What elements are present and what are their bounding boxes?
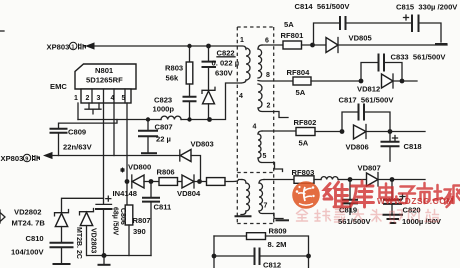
- watermark char shi: [418, 183, 433, 203]
- capacitor C806 68u 50V: [96, 196, 126, 255]
- svg-text:C807: C807: [155, 123, 173, 132]
- svg-text:R803: R803: [165, 64, 183, 73]
- capacitor C811: [143, 182, 172, 256]
- junction bus right end: [207, 117, 212, 122]
- capacitor C820 1000u 50V: [384, 180, 442, 227]
- svg-text:N801: N801: [95, 66, 114, 75]
- svg-text:C818: C818: [404, 142, 422, 151]
- junction VD805 anode: [310, 43, 315, 48]
- diode VD807: [350, 164, 425, 187]
- svg-text:R807: R807: [133, 216, 151, 225]
- arrow to XP803 pin9: [43, 152, 53, 159]
- inductor bus coil: [161, 116, 181, 119]
- pin 1: [240, 37, 244, 44]
- ground T802 left: [236, 211, 251, 216]
- pin 5: [263, 153, 267, 160]
- svg-text:22 µ: 22 µ: [156, 135, 171, 144]
- ground IC pins 2,3: [85, 103, 101, 114]
- svg-text:C814 561/500V: C814 561/500V: [295, 2, 351, 11]
- svg-text:VD803: VD803: [191, 140, 214, 149]
- capacitor C814: [295, 2, 351, 29]
- svg-text:R809: R809: [269, 227, 287, 236]
- capacitor C822 0.022u 630V: [203, 46, 240, 90]
- watermark char chang: [434, 185, 453, 207]
- svg-text:5A: 5A: [296, 88, 306, 97]
- svg-text:VD807: VD807: [358, 164, 381, 173]
- fuse resistor RF803: [264, 168, 321, 183]
- svg-text:XP803: XP803: [47, 43, 70, 52]
- resistor R809 8.2M: [214, 227, 309, 256]
- ground C820: [384, 215, 403, 223]
- svg-text:VD800: VD800: [128, 163, 151, 172]
- watermark char ku: [351, 181, 374, 207]
- wire IC pin1 to bus: [77, 103, 79, 120]
- node XP803 pin1 label: [47, 42, 86, 51]
- watermark slogan gou: [390, 210, 403, 224]
- svg-text:IN4148: IN4148: [113, 189, 138, 198]
- svg-text:VD812: VD812: [357, 85, 380, 94]
- diode VD805: [326, 34, 447, 53]
- svg-text:2: 2: [267, 103, 271, 110]
- capacitor C812: [214, 249, 309, 268]
- junction VD806 anode: [340, 129, 345, 134]
- zener diode VD801: [202, 87, 215, 119]
- svg-text:VD804: VD804: [177, 189, 201, 198]
- svg-text:MT24. 7B: MT24. 7B: [12, 219, 46, 228]
- svg-text:630V: 630V: [215, 69, 234, 78]
- label EMC: [50, 82, 67, 91]
- svg-text:XP803: XP803: [1, 154, 24, 163]
- node XP803 pin9 label: [1, 154, 40, 163]
- svg-text:2: 2: [86, 95, 90, 102]
- junction C807 bus: [146, 117, 150, 121]
- watermark slogan quan: [297, 209, 308, 221]
- svg-text:MT2B. 2C: MT2B. 2C: [75, 227, 82, 259]
- watermark slogan cai: [371, 210, 382, 222]
- wire primary return: [210, 80, 247, 120]
- svg-text:WWW.DZSC.COM: WWW.DZSC.COM: [377, 196, 454, 206]
- resistor R803 56k: [165, 46, 193, 97]
- svg-text:C806: C806: [119, 208, 126, 225]
- watermark char zi: [399, 187, 415, 204]
- transformer T802 winding left: [242, 180, 250, 212]
- diode VD803 reverse clamp: [180, 140, 214, 182]
- watermark logo circle: [292, 181, 320, 209]
- svg-text:1000p: 1000p: [153, 105, 175, 114]
- watermark slogan da: [353, 210, 364, 222]
- junction C811 top: [149, 179, 154, 184]
- pin 4: [239, 93, 243, 100]
- transformer T801 winding 4-5: [258, 131, 283, 172]
- IC N801 5D1265RF: [74, 64, 136, 103]
- watermark url text: [377, 196, 454, 206]
- watermark slogan zhan: [425, 210, 439, 222]
- wire VD800 feed vertical: [103, 103, 105, 204]
- watermark char dian: [380, 184, 397, 201]
- capacitor C817 bypass loop: [339, 96, 395, 132]
- svg-text:C811: C811: [154, 203, 173, 212]
- svg-text:1: 1: [71, 45, 74, 51]
- junction C820 top: [390, 177, 395, 182]
- watermark slogan zui: [335, 210, 345, 223]
- zener diode VD2802 MT24.7B: [12, 208, 69, 243]
- fuse resistor RF801 5A: [262, 20, 326, 49]
- svg-text:5A: 5A: [299, 139, 309, 148]
- junction VD812 cathode: [400, 79, 405, 84]
- svg-text:C823: C823: [154, 96, 172, 105]
- svg-text:C810: C810: [26, 234, 44, 243]
- capacitor C833 bypass loop: [361, 53, 446, 82]
- arrow to XP803 pin1: [85, 42, 95, 49]
- junction ground stem: [99, 253, 110, 265]
- watermark char wang clipped: [454, 186, 460, 204]
- svg-text:22n/63V: 22n/63V: [63, 143, 93, 152]
- svg-text:0. 022 µ: 0. 022 µ: [212, 59, 240, 68]
- pin 7: [264, 203, 268, 210]
- capacitor C810 104/100V: [11, 234, 73, 264]
- resistor R806: [157, 168, 183, 186]
- transformer T801 core: [237, 27, 273, 224]
- svg-text:RF804: RF804: [287, 68, 311, 77]
- fuse resistor RF804 5A: [287, 68, 362, 97]
- capacitor C818: [382, 132, 422, 162]
- wire XP9 line: [52, 155, 180, 157]
- diode VD806: [346, 125, 426, 152]
- capacitor C815 330u 200V: [396, 3, 458, 32]
- fuse resistor RF802 5A: [262, 118, 342, 148]
- wire bus under IC: [78, 119, 161, 121]
- svg-text:390: 390: [133, 227, 146, 236]
- svg-text:RF801: RF801: [281, 31, 305, 40]
- diode VD800 IN4148: [113, 163, 160, 199]
- watermark slogan qiu: [315, 209, 331, 221]
- wire C814 C815 top rail: [314, 23, 447, 45]
- capacitor C807 22u: [139, 120, 173, 154]
- svg-text:VD2802: VD2802: [14, 208, 41, 217]
- diode VD812: [357, 74, 417, 94]
- junction VD804 cathode: [197, 179, 202, 184]
- wire IC pin5 vertical down through bus and XP9 line: [126, 103, 128, 205]
- svg-text:C812: C812: [263, 261, 281, 268]
- transformer T801 winding 8-2: [258, 84, 288, 118]
- svg-text:1: 1: [74, 95, 78, 102]
- watermark char wei: [324, 182, 348, 207]
- svg-text:4: 4: [111, 95, 115, 102]
- svg-text:3: 3: [97, 95, 101, 102]
- transformer T801 primary winding 1-4: [246, 48, 250, 80]
- wire C809 branch: [59, 120, 118, 129]
- asterisk mark: [120, 168, 125, 173]
- svg-text:C815 330µ /200V: C815 330µ /200V: [396, 3, 458, 12]
- svg-text:VD806: VD806: [346, 143, 369, 152]
- svg-text:5: 5: [263, 153, 267, 160]
- svg-text:VD2803: VD2803: [90, 228, 97, 253]
- diode VD804: [177, 175, 201, 198]
- corner registration mark: [0, 30, 4, 32]
- resistor R805 drive: [207, 178, 243, 186]
- zener diode VD2803 MT2B.2C: [75, 209, 97, 259]
- svg-text:68µ /50V: 68µ /50V: [112, 207, 119, 235]
- wire top feed line: [94, 46, 246, 50]
- wire R809 node A: [213, 236, 215, 268]
- svg-text:56k: 56k: [166, 74, 179, 83]
- pin 4 secondary: [253, 124, 257, 131]
- svg-text:5D1265RF: 5D1265RF: [86, 76, 123, 85]
- svg-text:C817 561/500V: C817 561/500V: [339, 96, 395, 105]
- svg-text:104/100V: 104/100V: [11, 248, 44, 257]
- junction R803 top: [187, 44, 191, 48]
- wire IC pin4 down to XP9 line: [113, 103, 115, 156]
- svg-text:C809: C809: [68, 128, 86, 137]
- pin 8: [266, 72, 270, 79]
- svg-text:5A: 5A: [284, 20, 294, 29]
- svg-text:C833 561/500V: C833 561/500V: [391, 53, 447, 62]
- junction R803 bottom: [187, 117, 191, 121]
- junction C818 top: [388, 129, 393, 134]
- svg-text:4: 4: [253, 124, 257, 131]
- watermark slogan wang2: [409, 210, 420, 221]
- junction C812 right: [306, 254, 311, 268]
- inductor output coil: [321, 177, 350, 180]
- svg-text:1: 1: [240, 37, 244, 44]
- ground bus bottom left: [87, 255, 151, 257]
- svg-text:6: 6: [265, 38, 269, 45]
- pin 6: [265, 38, 269, 45]
- junction C819 top: [348, 177, 353, 182]
- wire bus right: [181, 119, 210, 121]
- transformer T802 winding right pin7: [259, 180, 264, 212]
- svg-text:8. 2M: 8. 2M: [268, 240, 287, 249]
- transformer T801 winding 6-8: [258, 45, 262, 78]
- svg-text:R806: R806: [157, 168, 175, 177]
- resistor R807 390: [125, 205, 150, 256]
- junction C812 left: [212, 254, 217, 259]
- wire pin8 tap: [258, 80, 293, 83]
- capacitor C819 561/500V: [338, 180, 371, 227]
- svg-text:8: 8: [266, 72, 270, 79]
- junction VD800 anode: [125, 179, 130, 184]
- edge clipped symbol: [0, 210, 5, 223]
- wire zener rail: [62, 198, 104, 212]
- svg-text:9: 9: [25, 157, 28, 163]
- svg-text:7: 7: [264, 203, 268, 210]
- pin 2: [267, 103, 271, 110]
- svg-text:RF802: RF802: [294, 118, 317, 127]
- svg-text:4: 4: [239, 93, 243, 100]
- junction VD812 anode: [359, 79, 364, 84]
- svg-text:EMC: EMC: [50, 82, 67, 91]
- ground T802 right: [259, 211, 288, 220]
- capacitor C823 1000p: [153, 96, 196, 120]
- svg-text:5: 5: [122, 95, 126, 102]
- junction C822 top: [206, 44, 211, 49]
- svg-text:VD805: VD805: [349, 34, 373, 43]
- capacitor C809: [51, 128, 93, 156]
